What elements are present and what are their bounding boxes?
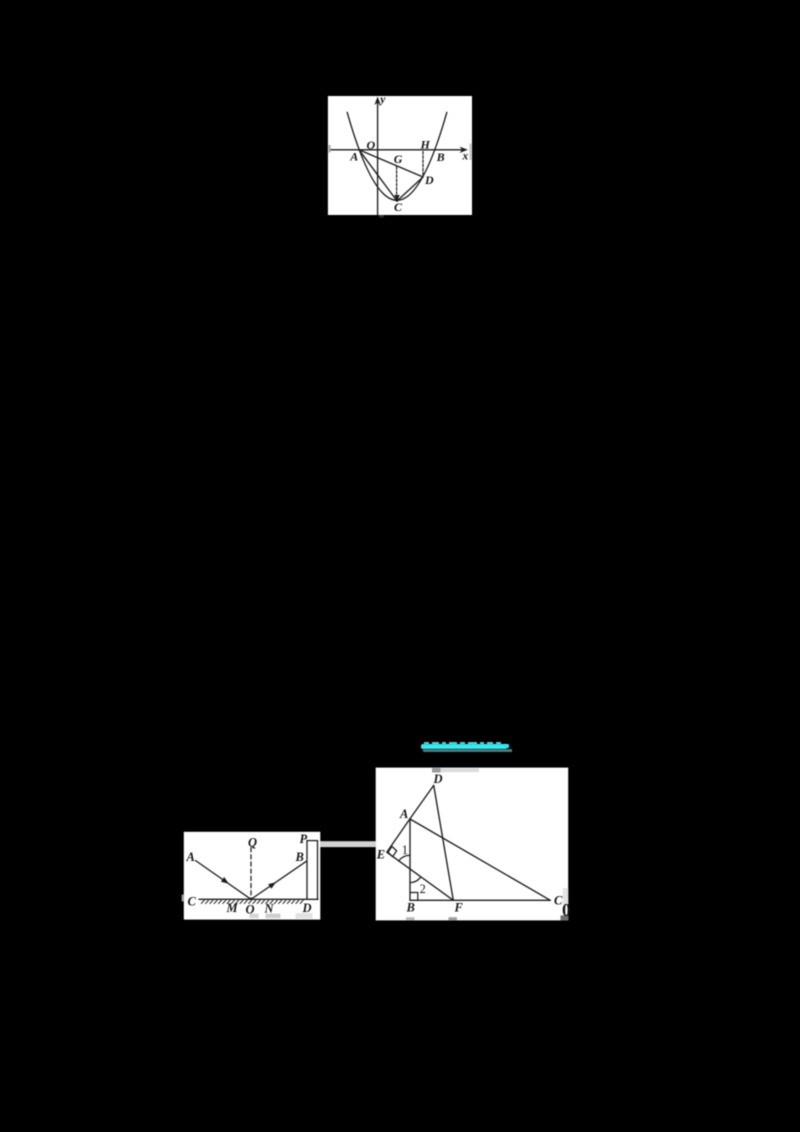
svg-text:C: C <box>394 200 403 214</box>
svg-text:2: 2 <box>420 882 426 896</box>
svg-text:G: G <box>394 152 403 166</box>
svg-text:D: D <box>424 173 434 187</box>
segment A-C <box>359 150 397 201</box>
reflected ray arrowhead <box>268 882 276 889</box>
svg-text:O: O <box>367 138 376 152</box>
dark tick below box1 bottom <box>379 215 384 218</box>
segment E-F <box>387 852 454 900</box>
svg-text:B: B <box>295 850 304 864</box>
gray tick right edge of box1 <box>470 144 472 161</box>
svg-text:A: A <box>349 149 358 163</box>
svg-text:Q: Q <box>248 836 257 850</box>
svg-text:F: F <box>454 901 464 915</box>
figure box 1 (parabola graph) white panel <box>328 96 472 215</box>
gray tick left edge of box1 <box>329 145 331 153</box>
y-axis <box>377 100 379 215</box>
wall rectangle P-D <box>307 841 318 900</box>
gray smudge under D label <box>296 913 313 918</box>
svg-text:A: A <box>186 850 195 864</box>
svg-text:N: N <box>264 902 275 916</box>
segment D-F <box>434 785 454 900</box>
vertex arrow at C <box>394 195 400 201</box>
cyan tail dot <box>505 744 510 748</box>
dashed H-D <box>422 152 424 176</box>
segment E-A <box>387 819 410 852</box>
svg-text:1: 1 <box>402 843 408 857</box>
svg-text:D: D <box>433 772 443 786</box>
angle 2 arc <box>410 878 420 883</box>
right-angle square at E <box>388 846 397 856</box>
svg-text:0: 0 <box>562 900 571 920</box>
cyan link streak <box>421 744 507 749</box>
x-axis arrowhead <box>460 147 468 153</box>
svg-text:M: M <box>226 901 239 915</box>
svg-text:y: y <box>378 94 386 106</box>
gray connector bar between box2 and box3 <box>320 841 376 847</box>
chord A-D <box>359 150 423 177</box>
cyan streak ragged top bumps <box>424 742 429 745</box>
gray smudge under O label <box>250 914 259 919</box>
svg-text:A: A <box>399 807 408 821</box>
reflected ray O-B <box>251 861 307 899</box>
svg-text:x: x <box>462 151 469 163</box>
hatching below ground <box>201 900 303 904</box>
svg-text:C: C <box>554 894 563 908</box>
segment A-C <box>410 819 550 900</box>
light gray smudge top of box3 <box>441 768 480 772</box>
segment A-B (vertical) <box>409 819 411 900</box>
dark gray smudge top of box3 <box>432 768 441 773</box>
segment C-D <box>397 177 423 201</box>
svg-text:B: B <box>406 901 415 915</box>
incident ray arrowhead <box>221 877 229 884</box>
dashed normal O-Q <box>250 848 252 899</box>
gray notch at box2 left edge <box>182 895 184 902</box>
svg-text:C: C <box>188 895 197 909</box>
svg-text:P: P <box>300 832 308 846</box>
svg-text:H: H <box>420 137 431 151</box>
base line B-C <box>410 899 550 901</box>
x-axis <box>331 149 466 151</box>
figure box 2 (reflection diagram) white panel <box>184 832 320 920</box>
figure box 3 (triangle figure) white panel <box>376 768 569 921</box>
gray smudge under N label <box>266 914 281 919</box>
svg-text:E: E <box>376 847 385 861</box>
ground line C-D <box>199 898 318 900</box>
dark gray square bottom-right of box3 <box>561 915 569 920</box>
incident ray A-O <box>196 861 252 900</box>
svg-text:D: D <box>302 901 312 915</box>
right-angle square at B <box>410 893 418 901</box>
angle 1 arc at A <box>399 855 410 861</box>
gray tick bottom edge of box3 (left) <box>406 917 415 920</box>
segment A-D <box>410 785 434 819</box>
svg-text:B: B <box>436 150 445 164</box>
svg-text:O: O <box>246 902 255 916</box>
light gray strip right edge of box3 <box>563 888 568 905</box>
gray tick bottom edge of box3 (right) <box>449 917 458 920</box>
y-axis arrowhead <box>374 97 380 106</box>
link underline <box>423 749 513 752</box>
dashed G-C <box>396 167 398 197</box>
parabola <box>347 112 447 200</box>
